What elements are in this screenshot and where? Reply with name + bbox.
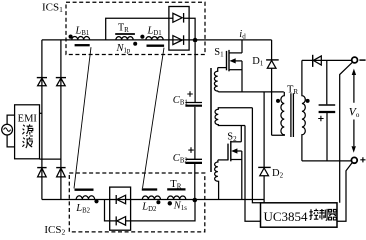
inductor L_B2 xyxy=(76,196,94,200)
plus sign output terminal xyxy=(360,157,365,162)
transformer T_R core xyxy=(291,93,294,137)
wire AC top lead xyxy=(7,115,15,124)
transistor S2 xyxy=(218,126,242,200)
svg-text:EMI: EMI xyxy=(18,113,38,124)
inductor L_D2 xyxy=(142,196,160,199)
rectifier box ICS2 xyxy=(110,187,131,230)
coupling diagonal 1 xyxy=(74,47,91,188)
plus sign output capacitor xyxy=(318,116,323,121)
phase dot N_1s xyxy=(168,201,172,205)
diode bridge bottom-left xyxy=(37,168,46,177)
AC source xyxy=(2,124,13,135)
diode bridge bottom-right xyxy=(56,168,65,177)
hanzi zhi (system) xyxy=(319,209,327,220)
core bar of T_R bottom xyxy=(167,188,185,190)
wire feedback from plus node xyxy=(337,163,352,222)
wire W2 top to controller xyxy=(252,108,260,203)
rectifier box ICS1 xyxy=(169,7,189,51)
wire ICS2 lower branch left xyxy=(105,200,117,221)
diode bridge top-right xyxy=(56,78,66,86)
wire bottom rail xyxy=(42,199,264,201)
output diode xyxy=(313,55,322,67)
phase dot L_D1 xyxy=(140,35,144,39)
diode lower in ICS2 box xyxy=(116,216,125,225)
minus sign xyxy=(359,59,365,61)
transformer T_R secondary xyxy=(302,60,305,160)
diode D1 xyxy=(266,40,279,135)
inductor L_B1 xyxy=(72,37,90,40)
EMI filter box xyxy=(15,105,40,159)
junction dot top xyxy=(193,38,198,43)
phase dot L_B2 xyxy=(94,199,98,203)
transformer T_R primary xyxy=(272,92,285,135)
hanzi qi (device) xyxy=(328,210,337,220)
ICS2 dashed box xyxy=(69,173,205,232)
phase dot T_R secondary xyxy=(306,99,310,103)
wire bridge leg 2 xyxy=(60,40,62,200)
capacitor C_B2 xyxy=(185,159,202,198)
output node plus terminal xyxy=(351,157,357,163)
core bar of L_B1 xyxy=(75,44,90,46)
phase dot L_B1 xyxy=(69,35,73,39)
diode upper in ICS2 box xyxy=(116,195,125,204)
phase dot N_1p xyxy=(133,42,137,46)
controller box UC3854 xyxy=(261,203,338,227)
phase dot T_R primary xyxy=(276,99,280,103)
diode bridge top-left xyxy=(37,78,47,86)
coupling diagonal 2 xyxy=(143,48,165,189)
hanzi lv (filter) xyxy=(22,124,32,136)
winding W1 (S1 gate) xyxy=(214,68,218,92)
diode lower in ICS1 box xyxy=(173,35,184,45)
core bar of L_D1 xyxy=(147,45,165,47)
wire ICS2 lower branch right xyxy=(126,202,195,221)
phase dot L_D2 xyxy=(156,200,160,204)
wire ICS1 upper branch xyxy=(106,18,173,40)
hanzi bo (wave) xyxy=(22,137,32,148)
winding W2 xyxy=(215,108,252,126)
core bar of L_B2 xyxy=(75,188,94,190)
winding W3 (S2 gate) xyxy=(215,160,219,200)
wire EMI to bridge leg 2 xyxy=(40,158,61,160)
wire output bottom xyxy=(302,160,352,162)
V_o arrow xyxy=(352,69,357,153)
core bar of L_D2 xyxy=(142,188,157,190)
wire bridge leg 1 xyxy=(41,40,43,200)
output node minus terminal xyxy=(352,57,358,63)
wire ICS1 branch rejoin xyxy=(184,18,196,40)
wire W2 bottom to controller xyxy=(245,126,261,222)
hanzi kong (control) xyxy=(309,209,318,220)
wire top rail xyxy=(42,39,272,41)
core line drive transformer xyxy=(210,68,212,172)
plus sign C_B1 xyxy=(187,91,193,97)
wire node S1 source xyxy=(219,91,284,93)
winding N_1s xyxy=(168,196,186,200)
ICS1 dashed box xyxy=(66,2,205,54)
transistor S1 xyxy=(218,40,242,92)
svg-text:UC3854: UC3854 xyxy=(264,209,309,224)
plus sign C_B2 xyxy=(188,147,194,153)
junction dot bottom xyxy=(193,198,198,203)
wire EMI to bridge leg 1 xyxy=(40,112,42,114)
output capacitor xyxy=(319,60,336,160)
core bar of T_R top xyxy=(115,33,135,35)
wire AC bottom lead xyxy=(7,135,15,147)
diode D2 xyxy=(258,92,271,203)
diode upper in ICS1 box xyxy=(173,13,184,23)
wire feedback from minus node xyxy=(340,62,353,203)
wire secondary top to output diode xyxy=(302,59,352,61)
capacitor C_B1 xyxy=(185,42,202,159)
inductor L_D1 xyxy=(146,37,163,40)
winding N_1p xyxy=(116,37,133,40)
